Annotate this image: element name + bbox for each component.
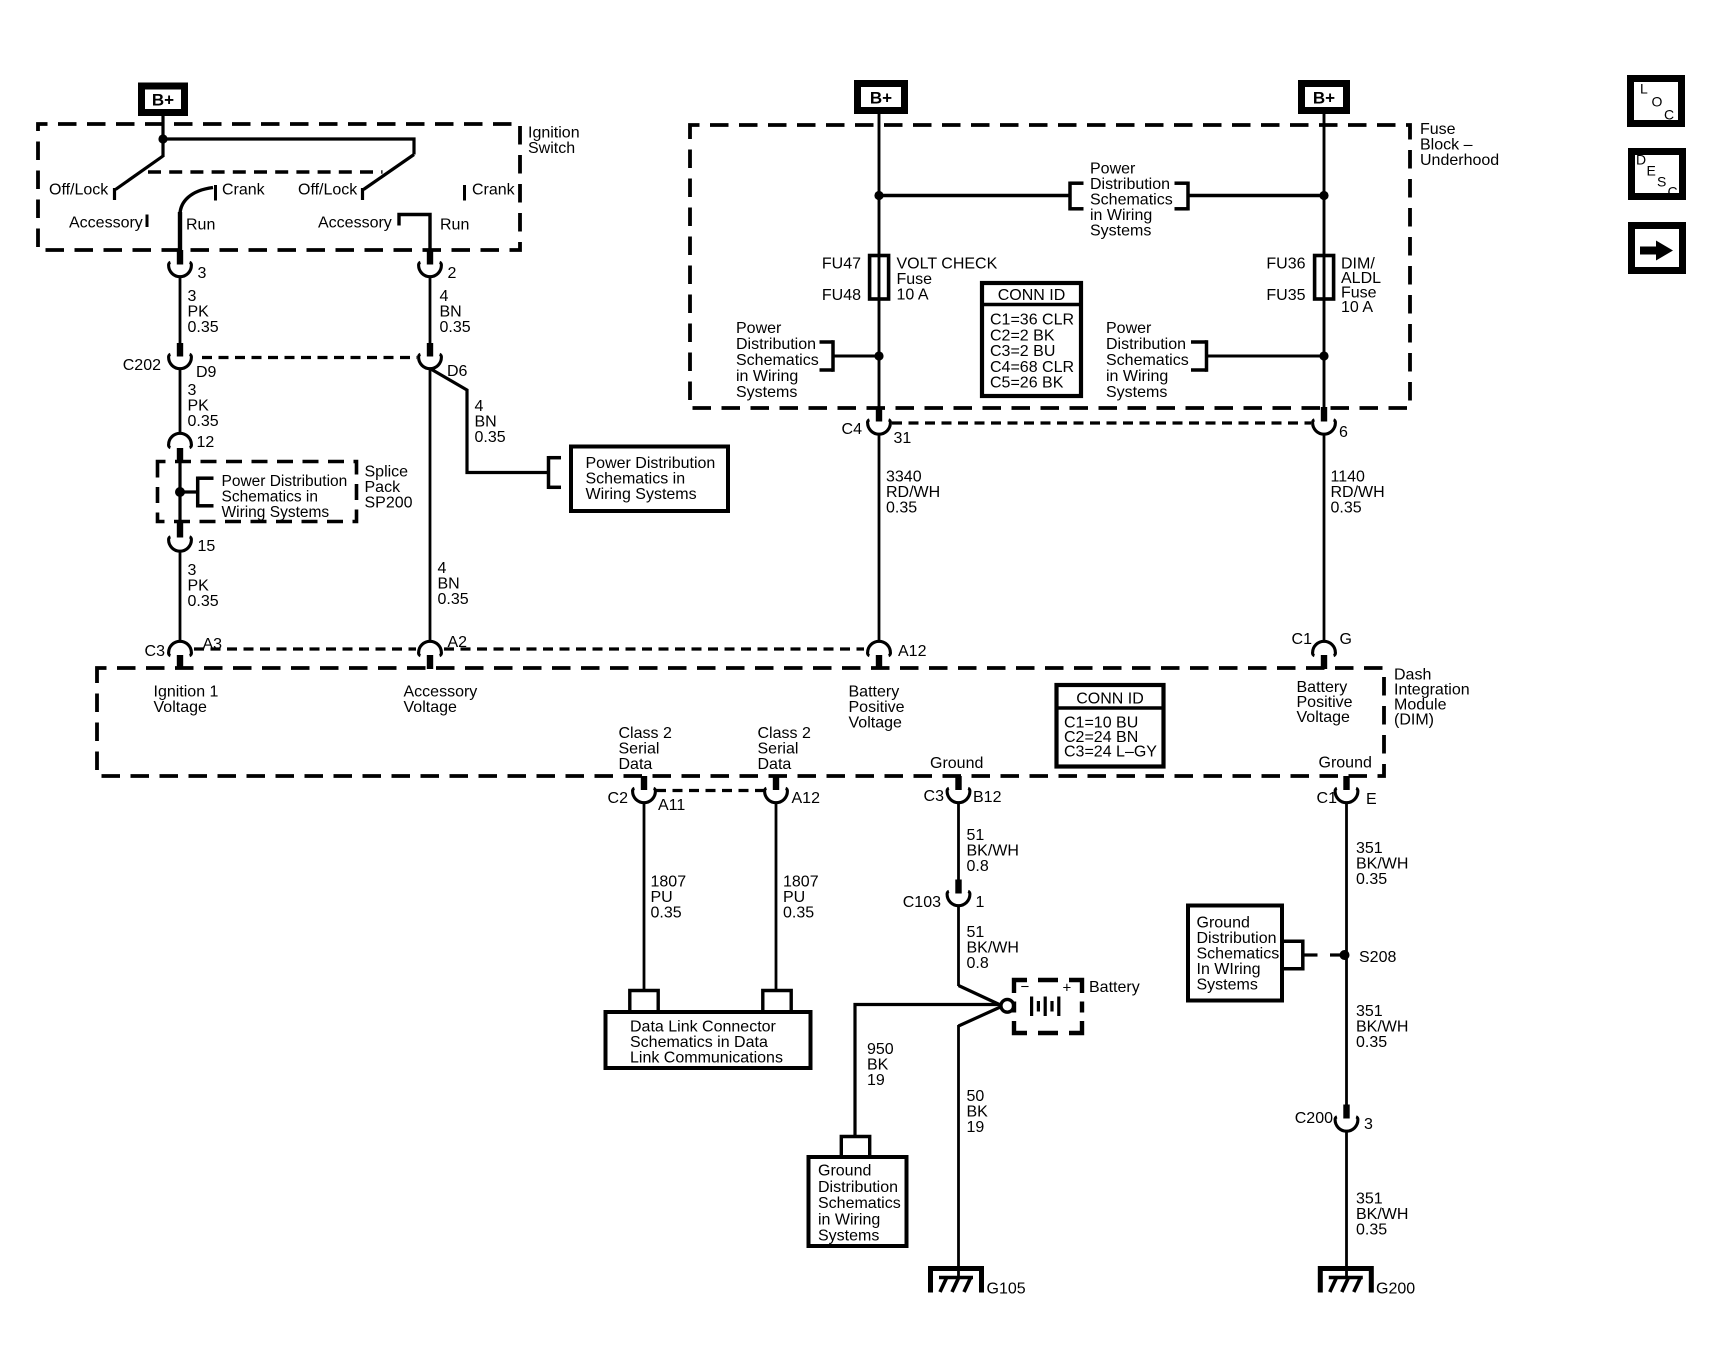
fuse block underhood box [690, 125, 1410, 408]
svg-text:0.35: 0.35 [188, 593, 219, 610]
svg-text:B+: B+ [152, 91, 174, 110]
connector pin 2 ignition [419, 250, 457, 282]
svg-text:0.8: 0.8 [967, 858, 989, 875]
svg-text:Schematics: Schematics [1090, 192, 1173, 209]
connector C103 pin 1 [903, 880, 985, 912]
label wire 4 BN 0.35 [440, 288, 471, 336]
svg-text:Schematics in: Schematics in [586, 471, 686, 488]
Accessory contact right [318, 215, 430, 251]
connector C1 pin G [1292, 631, 1352, 669]
svg-text:0.8: 0.8 [967, 955, 989, 972]
svg-text:0.35: 0.35 [1356, 1222, 1387, 1239]
svg-text:Crank: Crank [472, 182, 516, 199]
ignition switch label [528, 125, 580, 158]
connector pin 3 ignition [169, 250, 207, 282]
ground G105 [931, 1269, 1026, 1298]
splice reference text [222, 473, 348, 521]
svg-text:15: 15 [198, 538, 216, 555]
wire 4 BN ignition to C202 [429, 277, 432, 344]
label wire 1140 RD/WH 0.35 [1331, 469, 1385, 517]
svg-text:0.35: 0.35 [1356, 1034, 1387, 1051]
dotted line A2 to A12 [444, 647, 864, 650]
svg-text:CONN ID: CONN ID [998, 287, 1066, 304]
connector C200 pin 3 [1295, 1105, 1373, 1134]
label wire 1807 PU 0.35 right [783, 874, 819, 922]
svg-text:Wiring Systems: Wiring Systems [222, 504, 330, 521]
svg-text:BK/WH: BK/WH [1356, 1206, 1408, 1223]
svg-text:D: D [1636, 152, 1646, 168]
svg-text:Distribution: Distribution [818, 1179, 898, 1196]
svg-text:Voltage: Voltage [154, 699, 207, 716]
svg-text:CONN ID: CONN ID [1076, 691, 1144, 708]
svg-text:D6: D6 [447, 363, 468, 380]
svg-text:Off/Lock: Off/Lock [49, 182, 109, 199]
label wire 4 BN 0.35 branch [475, 398, 506, 446]
svg-text:3: 3 [188, 562, 197, 579]
data link connector reference box [606, 1012, 811, 1068]
label wire 51 BK/WH 0.8 upper [967, 827, 1019, 875]
svg-text:10 A: 10 A [897, 287, 929, 304]
svg-text:Serial: Serial [758, 741, 799, 758]
svg-text:1: 1 [976, 894, 985, 911]
svg-text:4: 4 [438, 560, 447, 577]
svg-text:Ignition 1: Ignition 1 [154, 684, 219, 701]
svg-text:C: C [1664, 107, 1674, 123]
svg-text:C200: C200 [1295, 1110, 1333, 1127]
svg-text:C2: C2 [608, 790, 629, 807]
wire 4 BN branch D6 to power dist box [430, 369, 547, 473]
svg-text:0.35: 0.35 [440, 319, 471, 336]
svg-text:Block –: Block – [1420, 137, 1473, 154]
svg-text:C202: C202 [123, 357, 161, 374]
svg-text:1140: 1140 [1331, 469, 1366, 486]
svg-text:Battery: Battery [849, 684, 900, 701]
wire 1807 PU left [643, 803, 646, 992]
wire B+3 to fuse FU36 [1323, 111, 1326, 408]
svg-text:PU: PU [783, 889, 805, 906]
svg-text:Schematics in Data: Schematics in Data [630, 1034, 768, 1051]
svg-text:G105: G105 [987, 1281, 1026, 1298]
svg-text:+: + [1063, 980, 1072, 997]
svg-text:0.35: 0.35 [1331, 500, 1362, 517]
svg-text:351: 351 [1356, 840, 1383, 857]
svg-text:Schematics: Schematics [818, 1195, 901, 1212]
label wire 950 BK 19 [867, 1041, 894, 1089]
svg-text:RD/WH: RD/WH [886, 484, 940, 501]
svg-text:C2=2 BK: C2=2 BK [990, 327, 1055, 344]
svg-text:Schematics in: Schematics in [222, 489, 318, 506]
svg-text:A12: A12 [792, 790, 821, 807]
svg-text:C3=2 BU: C3=2 BU [990, 343, 1055, 360]
label wire 3 PK 0.35 [188, 382, 219, 430]
svg-text:Distribution: Distribution [1090, 176, 1170, 193]
data link connector tab left [630, 991, 658, 1013]
svg-text:Accessory: Accessory [318, 215, 392, 232]
svg-text:in Wiring: in Wiring [1090, 207, 1152, 224]
svg-text:Voltage: Voltage [849, 715, 902, 732]
loc icon [1631, 79, 1682, 124]
svg-text:−: − [1021, 979, 1030, 996]
splice pack SP200 box [158, 462, 357, 522]
svg-text:Voltage: Voltage [404, 699, 457, 716]
svg-text:Battery: Battery [1089, 979, 1140, 996]
svg-text:351: 351 [1356, 1191, 1383, 1208]
ground G200 [1320, 1269, 1415, 1298]
dash integration module label [1394, 667, 1470, 729]
wire run left down [178, 212, 182, 251]
label wire 3340 RD/WH 0.35 [886, 469, 940, 517]
svg-text:Systems: Systems [1090, 223, 1151, 240]
svg-text:Wiring Systems: Wiring Systems [586, 486, 697, 503]
svg-text:Accessory: Accessory [69, 215, 143, 232]
svg-text:51: 51 [967, 827, 985, 844]
connector pin A12 battery positive [868, 641, 927, 669]
svg-text:Run: Run [186, 217, 215, 234]
svg-text:BK: BK [967, 1104, 989, 1121]
svg-text:Systems: Systems [736, 384, 797, 401]
B+ terminal 1 [142, 86, 185, 113]
svg-text:C1: C1 [1292, 631, 1313, 648]
svg-text:Distribution: Distribution [736, 336, 816, 353]
svg-text:Ground: Ground [818, 1163, 871, 1180]
svg-text:Link Communications: Link Communications [630, 1050, 783, 1067]
svg-text:Schematics: Schematics [1106, 352, 1189, 369]
svg-text:BK/WH: BK/WH [1356, 1019, 1408, 1036]
connector C3 pin B12 [924, 776, 1002, 806]
dotted line A11 to A12 [656, 789, 764, 792]
wire 3 PK splice to C3 A3 [179, 551, 182, 642]
wire splice internal [178, 461, 181, 524]
bracket ground distribution right [1282, 940, 1341, 971]
svg-text:BK/WH: BK/WH [967, 940, 1019, 957]
svg-text:0.35: 0.35 [1356, 871, 1387, 888]
svg-text:C: C [1668, 184, 1678, 200]
Crank contact right [465, 182, 516, 201]
connector pin 15 splice pack [169, 523, 216, 555]
node splice junction SP200 [175, 487, 185, 497]
svg-text:51: 51 [967, 924, 985, 941]
svg-text:FU35: FU35 [1266, 287, 1305, 304]
svg-text:in Wiring: in Wiring [818, 1211, 880, 1228]
svg-text:Power: Power [1106, 320, 1152, 337]
power distribution reference box [571, 447, 728, 512]
svg-text:PU: PU [651, 889, 673, 906]
svg-text:FU48: FU48 [822, 287, 861, 304]
svg-text:Ground: Ground [1197, 915, 1250, 932]
ground distribution reference box right [1188, 906, 1282, 1001]
wire 351 BK/WH from E [1345, 803, 1348, 1105]
node splice S208 [1340, 949, 1397, 966]
svg-text:D9: D9 [196, 364, 217, 381]
label wire 1807 PU 0.35 left [651, 874, 687, 922]
svg-text:C3: C3 [924, 788, 945, 805]
svg-text:O: O [1652, 94, 1663, 110]
svg-text:19: 19 [967, 1119, 985, 1136]
svg-text:351: 351 [1356, 1003, 1383, 1020]
svg-text:BK: BK [867, 1057, 889, 1074]
svg-text:0.35: 0.35 [475, 429, 506, 446]
svg-text:in Wiring: in Wiring [1106, 368, 1168, 385]
svg-text:Fuse: Fuse [1420, 121, 1456, 138]
svg-text:0.35: 0.35 [651, 905, 682, 922]
svg-text:C5=26 BK: C5=26 BK [990, 375, 1064, 392]
node junction left feed [874, 191, 883, 200]
svg-text:C1=36 CLR: C1=36 CLR [990, 312, 1074, 329]
svg-text:Splice: Splice [365, 464, 409, 481]
node junction FU47 output tap [874, 351, 883, 360]
ground distribution reference box left [809, 1157, 907, 1246]
svg-text:Run: Run [440, 217, 469, 234]
svg-text:BK/WH: BK/WH [1356, 856, 1408, 873]
svg-text:G200: G200 [1376, 1281, 1415, 1298]
node junction FU36 output tap [1319, 351, 1328, 360]
label ignition 1 voltage [154, 684, 219, 717]
label class 2 serial data right [758, 725, 811, 773]
bracket feed reference left [1070, 182, 1084, 211]
label wire 50 BK 19 [967, 1088, 989, 1136]
svg-text:950: 950 [867, 1041, 894, 1058]
data link connector tab right [763, 991, 791, 1013]
wire B+1 stem [161, 112, 164, 157]
svg-text:3: 3 [198, 265, 207, 282]
svg-text:C4: C4 [842, 421, 863, 438]
svg-text:1807: 1807 [651, 874, 687, 891]
label battery positive voltage right [1297, 679, 1353, 726]
wire diagonal into battery negative [959, 986, 1002, 1006]
label class 2 serial data left [619, 725, 672, 773]
wire 950 BK horizontal [855, 1005, 1002, 1138]
svg-text:Ignition: Ignition [528, 125, 580, 142]
bracket lower left reference [820, 340, 880, 372]
fuse FU36 FU35 DIM/ALDL [1266, 256, 1381, 317]
battery symbol [1014, 979, 1082, 1034]
connector C202 pin D6 [419, 343, 468, 380]
wire feed link right segment [1188, 194, 1324, 197]
wire ignition feed horizontal [163, 139, 414, 155]
svg-text:Voltage: Voltage [1297, 709, 1350, 726]
fuse block label [1420, 121, 1499, 169]
svg-text:2: 2 [448, 265, 457, 282]
svg-text:Data: Data [758, 756, 792, 773]
Crank contact left [180, 182, 266, 215]
svg-text:S: S [1657, 174, 1666, 190]
fuse FU47 FU48 VOLT CHECK [822, 256, 998, 305]
desc icon [1632, 152, 1683, 200]
mechanical link dotted [148, 170, 383, 174]
wire 50 BK down [957, 1025, 960, 1278]
svg-text:Power: Power [736, 320, 782, 337]
svg-text:E: E [1647, 163, 1656, 179]
svg-text:Distribution: Distribution [1106, 336, 1186, 353]
Accessory contact left [69, 215, 147, 232]
svg-text:4: 4 [440, 288, 449, 305]
arrow icon [1632, 226, 1683, 271]
svg-text:0.35: 0.35 [188, 319, 219, 336]
svg-text:1807: 1807 [783, 874, 819, 891]
svg-text:PK: PK [188, 398, 210, 415]
label wire 3 PK 0.35 lower [188, 562, 219, 610]
wire 1807 PU right [775, 803, 778, 992]
svg-text:4: 4 [475, 398, 484, 415]
svg-text:A11: A11 [658, 797, 685, 814]
connector C1 pin E [1317, 776, 1377, 808]
svg-text:Power Distribution: Power Distribution [586, 455, 716, 472]
wire feed link left segment [879, 194, 1069, 197]
svg-text:3: 3 [188, 288, 197, 305]
B+ terminal 3 [1302, 84, 1347, 111]
svg-text:RD/WH: RD/WH [1331, 484, 1385, 501]
connector C202 pin D9 [169, 343, 217, 381]
battery negative terminal [1001, 999, 1014, 1012]
svg-text:Serial: Serial [619, 741, 660, 758]
svg-text:0.35: 0.35 [188, 413, 219, 430]
ignition switch box [38, 124, 520, 250]
connector pin 6 [1313, 407, 1348, 441]
dotted line A3 to A2 [194, 647, 416, 650]
dotted line C4 to 6 [892, 421, 1311, 424]
svg-text:0.35: 0.35 [886, 500, 917, 517]
svg-text:PK: PK [188, 578, 210, 595]
svg-text:50: 50 [967, 1088, 985, 1105]
svg-text:Fuse: Fuse [897, 271, 933, 288]
dash integration module box [97, 668, 1384, 776]
bracket lower right reference [1191, 340, 1324, 372]
svg-text:0.35: 0.35 [783, 905, 814, 922]
svg-text:Power: Power [1090, 161, 1136, 178]
wire 51 BK/WH lower [957, 906, 960, 987]
svg-text:B+: B+ [1313, 89, 1335, 108]
svg-text:L: L [1640, 81, 1648, 97]
wire 3 PK ignition to C202 [179, 277, 182, 344]
node junction right feed [1319, 191, 1328, 200]
svg-text:6: 6 [1339, 424, 1348, 441]
svg-text:Power Distribution: Power Distribution [222, 473, 348, 490]
connector pin A2 [419, 634, 468, 669]
connector C4 pin 31 [842, 407, 912, 447]
wire 51 BK/WH upper [957, 803, 960, 880]
svg-text:3340: 3340 [886, 469, 922, 486]
label battery positive voltage left [849, 684, 905, 732]
connector C202 dotted line [202, 356, 417, 359]
svg-text:Data: Data [619, 756, 653, 773]
svg-text:Schematics: Schematics [736, 352, 819, 369]
node junction B+1 [158, 134, 167, 143]
splice pack label [365, 464, 413, 512]
label wire 51 BK/WH 0.8 lower [967, 924, 1019, 972]
svg-text:S208: S208 [1359, 949, 1396, 966]
ground distribution tab [841, 1137, 869, 1159]
wire B+2 to fuse FU47 [878, 111, 881, 408]
wire 3 PK C202 to splice [179, 369, 182, 435]
svg-text:31: 31 [894, 430, 912, 447]
svg-text:10 A: 10 A [1341, 299, 1373, 316]
svg-text:B12: B12 [973, 789, 1002, 806]
svg-text:Off/Lock: Off/Lock [298, 182, 358, 199]
label accessory voltage [404, 684, 478, 717]
svg-text:PK: PK [188, 304, 210, 321]
svg-text:Data Link Connector: Data Link Connector [630, 1019, 777, 1036]
svg-text:C103: C103 [903, 894, 941, 911]
svg-text:Positive: Positive [849, 699, 905, 716]
svg-text:Systems: Systems [818, 1228, 879, 1245]
label wire 351 BK/WH 0.35 middle [1356, 1003, 1408, 1051]
svg-text:Ground: Ground [930, 755, 983, 772]
label wire 351 BK/WH 0.35 upper [1356, 840, 1408, 888]
bracket feed reference right [1175, 182, 1189, 211]
svg-text:BN: BN [475, 414, 497, 431]
svg-text:BN: BN [438, 576, 460, 593]
svg-text:B+: B+ [870, 89, 892, 108]
svg-text:Underhood: Underhood [1420, 152, 1499, 169]
svg-text:Systems: Systems [1106, 384, 1167, 401]
svg-text:Distribution: Distribution [1197, 930, 1277, 947]
svg-text:Pack: Pack [365, 479, 402, 496]
wire 3340 RD/WH [878, 434, 881, 642]
bracket splice reference [180, 477, 214, 508]
CONN ID table fuse block [982, 283, 1081, 396]
svg-text:BN: BN [440, 304, 462, 321]
svg-text:Crank: Crank [222, 182, 266, 199]
label wire 351 BK/WH 0.35 lower [1356, 1191, 1408, 1239]
svg-text:3: 3 [1364, 1116, 1373, 1133]
svg-text:Accessory: Accessory [404, 684, 478, 701]
label wire 3 PK 0.35 [188, 288, 219, 336]
svg-text:Schematics: Schematics [1197, 946, 1280, 963]
svg-text:VOLT CHECK: VOLT CHECK [897, 256, 998, 273]
connector C2 pin A11 [608, 776, 686, 814]
svg-text:C3: C3 [145, 643, 166, 660]
svg-text:C3=24 L–GY: C3=24 L–GY [1064, 744, 1157, 761]
svg-text:Switch: Switch [528, 140, 575, 157]
svg-text:Ground: Ground [1319, 755, 1372, 772]
connector pin 12 splice pack [169, 433, 215, 462]
svg-text:C4=68 CLR: C4=68 CLR [990, 359, 1074, 376]
switch wiper left to Off/Lock [115, 156, 164, 200]
svg-text:12: 12 [197, 434, 215, 451]
svg-text:19: 19 [867, 1072, 885, 1089]
svg-text:E: E [1366, 791, 1377, 808]
connector pin A12 serial [765, 776, 821, 807]
svg-text:FU47: FU47 [822, 256, 861, 273]
svg-text:G: G [1340, 631, 1352, 648]
wire diagonal battery to 50 BK [959, 1007, 1002, 1027]
svg-text:BK/WH: BK/WH [967, 843, 1019, 860]
wire 4 BN D6 to A2 [429, 369, 432, 643]
power distribution lower right reference text [1106, 320, 1189, 401]
svg-text:FU36: FU36 [1266, 256, 1305, 273]
svg-text:0.35: 0.35 [438, 591, 469, 608]
svg-text:A12: A12 [898, 643, 927, 660]
B+ terminal 2 [858, 84, 905, 111]
svg-text:SP200: SP200 [365, 495, 413, 512]
svg-text:Systems: Systems [1197, 977, 1258, 994]
svg-text:3: 3 [188, 382, 197, 399]
svg-text:In WIring: In WIring [1197, 961, 1261, 978]
switch wiper right to Off/Lock [363, 155, 415, 201]
wire 351 BK/WH to G200 [1345, 1131, 1348, 1278]
svg-text:(DIM): (DIM) [1394, 712, 1434, 729]
CONN ID table DIM [1057, 685, 1164, 767]
bracket power dist box [549, 456, 562, 489]
wire 1140 RD/WH [1323, 434, 1326, 642]
connector C3 pin A3 [145, 636, 223, 669]
svg-text:Class 2: Class 2 [619, 725, 672, 742]
svg-text:in Wiring: in Wiring [736, 368, 798, 385]
power distribution feed reference text [1090, 161, 1173, 240]
svg-text:Class 2: Class 2 [758, 725, 811, 742]
label wire 4 BN 0.35 lower [438, 560, 469, 608]
power distribution lower left reference text [736, 320, 819, 401]
